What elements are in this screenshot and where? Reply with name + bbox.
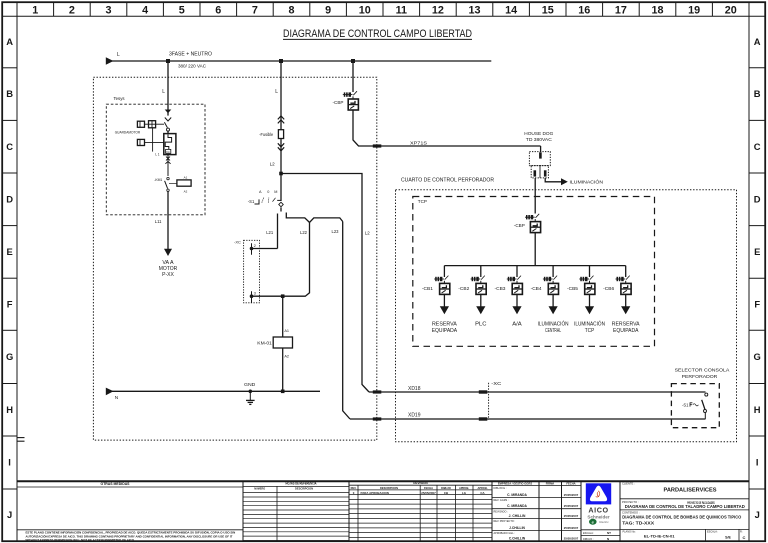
svg-text:-CB1: -CB1 bbox=[422, 286, 434, 291]
svg-text:L2: L2 bbox=[365, 231, 370, 236]
approval row C. MIRANDA bbox=[492, 499, 581, 509]
load label -CB1 bbox=[432, 322, 458, 335]
wire+arrow below -CB5 bbox=[585, 294, 594, 314]
KM1 aux box bbox=[169, 176, 191, 194]
svg-text:EMPRESA / GESTIO GGRS: EMPRESA / GESTIO GGRS bbox=[498, 481, 532, 485]
svg-text:7: 7 bbox=[252, 5, 258, 17]
wire: L21 to XC pin2 bbox=[252, 248, 278, 250]
wire+arrow below -CB6 bbox=[621, 294, 630, 314]
svg-text:DIBUJO: DIBUJO bbox=[441, 486, 451, 490]
fuse bbox=[278, 130, 283, 139]
svg-text:-CB3: -CB3 bbox=[495, 286, 507, 291]
wire+arrow below -CB1 bbox=[440, 294, 449, 314]
svg-text:HOJAS DE REFERENCIA: HOJAS DE REFERENCIA bbox=[286, 481, 318, 485]
svg-text:P-XX: P-XX bbox=[162, 272, 174, 278]
svg-text:C.CHILLIN: C.CHILLIN bbox=[509, 537, 526, 541]
svg-text:A: A bbox=[754, 36, 761, 47]
distribution bus bbox=[444, 265, 625, 267]
wire: bus drop -CB3 bbox=[516, 266, 518, 277]
svg-text:GND: GND bbox=[244, 382, 256, 387]
TCP dashed box bbox=[413, 197, 655, 347]
svg-text:REV.: REV. bbox=[351, 486, 357, 490]
svg-text:D: D bbox=[754, 193, 761, 204]
svg-text:A1: A1 bbox=[284, 329, 289, 333]
svg-text:N: N bbox=[607, 537, 609, 541]
svg-text:4: 4 bbox=[142, 5, 148, 17]
svg-text:RERSERVA: RERSERVA bbox=[612, 322, 640, 328]
svg-text:R:: R: bbox=[740, 531, 743, 534]
svg-text:B: B bbox=[754, 88, 761, 99]
proyecto block bbox=[620, 500, 749, 510]
svg-text:20: 20 bbox=[725, 5, 737, 17]
svg-text:25/05/2007: 25/05/2007 bbox=[421, 491, 436, 495]
svg-text:25/05/2007: 25/05/2007 bbox=[564, 526, 579, 530]
svg-text:DESCRIPCION: DESCRIPCION bbox=[380, 486, 398, 490]
approval row J.CHILLIN bbox=[492, 520, 581, 530]
switch S1 (consola) bbox=[702, 393, 708, 419]
junction node coil branch bbox=[281, 294, 285, 298]
left notes block bbox=[17, 482, 243, 530]
svg-text:J: J bbox=[7, 509, 12, 520]
XC field terminal line bbox=[489, 381, 503, 420]
transformer T1 house dog bbox=[529, 146, 550, 178]
guardamotor switch contact circle bbox=[167, 128, 170, 131]
breaker -CB3 bbox=[495, 276, 523, 295]
svg-text:0: 0 bbox=[267, 190, 269, 194]
AICO Schneider logo bbox=[586, 483, 611, 525]
svg-text:A: A bbox=[6, 36, 13, 47]
svg-text:L11: L11 bbox=[155, 219, 162, 224]
svg-text:-CB4: -CB4 bbox=[531, 286, 543, 291]
label VA A MOTOR P-XX bbox=[159, 260, 178, 278]
disconnect chevrons above fuse bbox=[278, 116, 284, 124]
svg-text:TAG: TD-XXX: TAG: TD-XXX bbox=[622, 521, 654, 526]
svg-text:WITHOUT EXPRESS PERMISSION WIL: WITHOUT EXPRESS PERMISSION WILL NOT BE A… bbox=[26, 538, 135, 542]
label HOUSE DOG TD 380VAC bbox=[524, 131, 554, 142]
svg-text:N: N bbox=[115, 395, 119, 401]
XC field terminal marks bbox=[479, 390, 488, 420]
svg-text:L: L bbox=[162, 89, 165, 95]
wire: CBP to XP71S bbox=[353, 110, 541, 146]
svg-text:REV. GGRS :: REV. GGRS : bbox=[494, 499, 509, 502]
svg-text:H: H bbox=[6, 404, 13, 415]
S1 actuator symbol bbox=[690, 403, 698, 407]
svg-text:TCP: TCP bbox=[418, 199, 427, 205]
svg-text:-Fusible: -Fusible bbox=[259, 132, 274, 137]
svg-text:25/05/2007: 25/05/2007 bbox=[564, 493, 579, 497]
svg-text:Tesys: Tesys bbox=[114, 96, 126, 102]
cuarto de control perforador dotted box bbox=[396, 177, 737, 441]
svg-text:XD19: XD19 bbox=[408, 413, 421, 419]
svg-text:3: 3 bbox=[105, 5, 111, 17]
svg-text:S/E: S/E bbox=[725, 536, 731, 540]
svg-text:F: F bbox=[7, 298, 13, 309]
svg-text:CB: CB bbox=[444, 491, 448, 495]
XC pin 3 bbox=[250, 291, 257, 303]
contenido block bbox=[620, 510, 749, 529]
svg-text:G: G bbox=[754, 351, 761, 362]
svg-text:C: C bbox=[743, 535, 746, 540]
svg-text:TD 380VAC: TD 380VAC bbox=[526, 137, 552, 142]
svg-text:REVISION: REVISION bbox=[413, 481, 427, 485]
breaker -CB2 bbox=[458, 276, 486, 295]
svg-text:L2: L2 bbox=[270, 162, 276, 167]
svg-text:DIAGRAMA DE CONTROL DE TALADRO: DIAGRAMA DE CONTROL DE TALADRO CAMPO LIB… bbox=[625, 504, 745, 509]
svg-text:E: E bbox=[6, 246, 12, 257]
svg-text:EL-TD-IE-CN-01: EL-TD-IE-CN-01 bbox=[644, 534, 675, 538]
hojas de referencia table bbox=[243, 481, 349, 541]
svg-text:A2: A2 bbox=[284, 354, 289, 358]
plano no box bbox=[623, 529, 746, 541]
svg-text:L21: L21 bbox=[266, 230, 274, 235]
trip linkage marks below thermal unit bbox=[165, 155, 170, 176]
load label -CB4 bbox=[538, 321, 569, 335]
disconnect chevrons below fuse bbox=[278, 143, 284, 151]
svg-text:L22: L22 bbox=[300, 230, 308, 235]
svg-text:C: C bbox=[754, 141, 761, 152]
load label -CB6 bbox=[612, 322, 640, 335]
ground node bbox=[249, 390, 253, 394]
svg-text:PERFORADOR: PERFORADOR bbox=[682, 374, 718, 379]
svg-text:KM-01: KM-01 bbox=[257, 340, 272, 345]
wire: transformer to TCP CBP bbox=[534, 178, 536, 214]
junction node bus/CBP bbox=[351, 59, 355, 63]
svg-text:EQUIPADA: EQUIPADA bbox=[432, 328, 458, 334]
svg-text:L23: L23 bbox=[332, 229, 340, 234]
wire: L23 to XD19 bbox=[343, 222, 350, 420]
approval row J. CHILLIN bbox=[492, 510, 581, 518]
svg-text:Electric: Electric bbox=[599, 520, 609, 524]
selector consola dashed box bbox=[671, 384, 719, 428]
svg-text:18: 18 bbox=[651, 5, 663, 17]
svg-text:25/05/2007: 25/05/2007 bbox=[564, 514, 579, 518]
svg-text:ILUMINACIÓN: ILUMINACIÓN bbox=[574, 321, 605, 328]
svg-text:C: C bbox=[6, 141, 13, 152]
selector S1 symbol bbox=[255, 198, 284, 207]
svg-text:-KM1: -KM1 bbox=[154, 178, 162, 182]
svg-text:-S1: -S1 bbox=[248, 199, 255, 204]
thermal overload unit bbox=[164, 134, 176, 155]
KM1 contact bbox=[165, 177, 170, 191]
svg-text:L: L bbox=[275, 89, 278, 95]
svg-text:APROBADO GGL :: APROBADO GGL : bbox=[494, 532, 516, 535]
svg-text:8: 8 bbox=[288, 5, 294, 17]
wire XD19 bbox=[350, 418, 706, 420]
svg-text:DIBUJO :: DIBUJO : bbox=[583, 538, 594, 541]
junction node coil/N bbox=[281, 390, 285, 394]
svg-text:L: L bbox=[117, 52, 120, 58]
svg-text:ILUMINACIÓN: ILUMINACIÓN bbox=[570, 179, 604, 186]
svg-text:12: 12 bbox=[432, 5, 444, 17]
Tesys box bbox=[106, 96, 205, 215]
svg-text:XD18: XD18 bbox=[408, 386, 421, 392]
svg-text:OTRAS MEDIDAS: OTRAS MEDIDAS bbox=[101, 482, 130, 486]
svg-text:F: F bbox=[754, 298, 760, 309]
cliente block bbox=[620, 482, 749, 499]
svg-text:B: B bbox=[6, 88, 13, 99]
svg-text:GUARDAMOTOR: GUARDAMOTOR bbox=[115, 131, 141, 135]
svg-text:J: J bbox=[755, 509, 760, 520]
title block frame bbox=[17, 480, 749, 482]
svg-text:14: 14 bbox=[505, 5, 517, 17]
drawing title bbox=[283, 28, 472, 40]
wire: top bus 380/220 VAC bbox=[112, 60, 491, 62]
revision table bbox=[349, 481, 492, 490]
svg-text:H: H bbox=[754, 404, 761, 415]
wire+arrow below -CB3 bbox=[512, 294, 521, 314]
svg-text:ILUMINACIÓN: ILUMINACIÓN bbox=[538, 321, 569, 328]
wire XD18 bbox=[369, 391, 706, 393]
N feeder arrow bbox=[106, 388, 114, 396]
svg-text:AICO: AICO bbox=[588, 505, 608, 514]
guardamotor switch blade bbox=[164, 122, 167, 127]
svg-text:CENTRAL: CENTRAL bbox=[545, 328, 561, 334]
svg-text:DESCRIPCION: DESCRIPCION bbox=[295, 486, 313, 490]
svg-text:Dn: Dn bbox=[166, 150, 170, 154]
wire: bus to fuse bbox=[280, 61, 282, 130]
svg-text:6: 6 bbox=[215, 5, 221, 17]
svg-text:HOUSE DOG: HOUSE DOG bbox=[524, 131, 554, 136]
wire: branch to long L2 line bbox=[281, 174, 369, 393]
approval row C. MIRANDA bbox=[492, 487, 581, 497]
wire: bus drop -CB6 bbox=[625, 266, 627, 277]
wire+arrow below -CB4 bbox=[549, 294, 558, 314]
svg-text:-S1: -S1 bbox=[682, 402, 689, 407]
svg-text:17: 17 bbox=[615, 5, 627, 17]
guardamotor disconnect chevron bbox=[165, 118, 171, 122]
svg-text:NUMERO: NUMERO bbox=[254, 486, 266, 490]
svg-text:I: I bbox=[756, 457, 759, 468]
XC pin 2 bbox=[250, 243, 257, 255]
svg-text:DIAGRAMA DE CONTROL DE BOMBAS: DIAGRAMA DE CONTROL DE BOMBAS DE QUIMICO… bbox=[622, 515, 742, 520]
label SELECTOR CONSOLA PERFORADOR bbox=[675, 368, 731, 379]
svg-text:APROB.: APROB. bbox=[459, 486, 469, 490]
motor feed arrowhead bbox=[164, 249, 172, 256]
svg-text:PLANO No :: PLANO No : bbox=[623, 531, 637, 534]
svg-text:XP71S: XP71S bbox=[410, 140, 427, 145]
svg-text:-CB5: -CB5 bbox=[567, 286, 579, 291]
svg-text:2: 2 bbox=[69, 5, 75, 17]
svg-text:NT: NT bbox=[607, 531, 611, 535]
svg-text:-XC: -XC bbox=[491, 381, 502, 386]
scale box under logo bbox=[581, 530, 620, 541]
svg-text:10: 10 bbox=[359, 5, 371, 17]
plug connector symbol a bbox=[137, 121, 148, 127]
svg-text:SELECTOR CONSOLA: SELECTOR CONSOLA bbox=[675, 368, 731, 373]
svg-text:15: 15 bbox=[542, 5, 554, 17]
svg-text:-XC: -XC bbox=[234, 239, 241, 244]
svg-text:EQUIPADA: EQUIPADA bbox=[613, 328, 639, 334]
breaker -CBP (TCP) bbox=[514, 214, 541, 233]
iluminacion arrowhead bbox=[561, 178, 568, 185]
column numbers 1-20 bbox=[17, 2, 749, 16]
wire: KM1 to motor arrow bbox=[167, 191, 169, 249]
svg-text:25/05/2007: 25/05/2007 bbox=[564, 537, 579, 541]
svg-text:C. MIRANDA: C. MIRANDA bbox=[507, 504, 527, 508]
disclaimer text bbox=[26, 530, 236, 542]
wire: to KM-01 coil bbox=[282, 296, 284, 337]
revision row 0 bbox=[353, 491, 486, 495]
main control cabinet dotted box bbox=[93, 77, 376, 440]
junction node L2 branch bbox=[279, 172, 283, 176]
wire: bus drop -CB5 bbox=[589, 266, 591, 277]
arrowhead into tesys bbox=[165, 110, 172, 114]
terminal mark XD18 bbox=[373, 390, 382, 393]
junction node bus/L2 bbox=[279, 59, 283, 63]
wire+arrow below -CB2 bbox=[476, 294, 485, 314]
svg-text:DIBUJO E :: DIBUJO E : bbox=[494, 487, 507, 490]
plug connector symbol b bbox=[149, 121, 165, 128]
svg-text:1: 1 bbox=[32, 5, 38, 17]
wire: L22 bbox=[252, 222, 310, 296]
svg-text:9: 9 bbox=[325, 5, 331, 17]
wire: neutral bus bbox=[112, 390, 320, 392]
svg-text:E: E bbox=[754, 246, 760, 257]
svg-text:C. MIRANDA: C. MIRANDA bbox=[507, 493, 527, 497]
breaker -CBP (main) bbox=[333, 91, 359, 110]
svg-text:J.CHILLIN: J.CHILLIN bbox=[509, 526, 525, 530]
svg-text:ESCALA :: ESCALA : bbox=[707, 531, 718, 534]
svg-text:PLC: PLC bbox=[475, 322, 486, 328]
svg-text:RESERVA: RESERVA bbox=[432, 322, 457, 328]
svg-text:L 1: L 1 bbox=[155, 152, 160, 156]
wire: bus to guardamotor bbox=[167, 61, 169, 116]
terminal mark XP71S bbox=[373, 144, 382, 147]
selector S1 labels A 0 M bbox=[259, 190, 277, 194]
svg-text:FECHA: FECHA bbox=[566, 481, 575, 485]
svg-text:11: 11 bbox=[396, 5, 407, 17]
wire: below S1 split bbox=[278, 207, 343, 248]
svg-text:CLIENTE :: CLIENTE : bbox=[622, 482, 635, 486]
wire: fuse to S1 bbox=[280, 139, 282, 202]
svg-text:19: 19 bbox=[688, 5, 700, 17]
coil KM-01 bbox=[257, 337, 292, 348]
svg-text:16: 16 bbox=[578, 5, 590, 17]
empresa approvals block bbox=[492, 481, 581, 485]
wire: transformer to iluminacion arrow bbox=[545, 178, 561, 182]
svg-text:A2: A2 bbox=[184, 190, 188, 194]
svg-text:G: G bbox=[6, 351, 13, 362]
svg-text:5: 5 bbox=[179, 5, 185, 17]
svg-text:FIRMA: FIRMA bbox=[546, 481, 555, 485]
svg-text:A/A: A/A bbox=[512, 322, 522, 328]
wire: bus drop -CB4 bbox=[552, 266, 554, 277]
svg-text:A1: A1 bbox=[184, 176, 188, 180]
svg-text:I: I bbox=[8, 457, 11, 468]
L feeder arrow bbox=[106, 57, 114, 65]
breaker -CB1 bbox=[422, 276, 450, 295]
plug connector symbol c bbox=[137, 139, 163, 145]
svg-text:PARDALISERVICES: PARDALISERVICES bbox=[664, 488, 718, 494]
svg-text:APROB.: APROB. bbox=[477, 486, 487, 490]
svg-text:D: D bbox=[6, 193, 13, 204]
wire: coil to N bbox=[282, 348, 284, 391]
wire: bus drop -CB2 bbox=[480, 266, 482, 277]
svg-text:ESCALA :: ESCALA : bbox=[583, 532, 594, 535]
svg-text:13: 13 bbox=[468, 5, 480, 17]
fold mark bbox=[17, 438, 25, 442]
svg-text:25/05/2007: 25/05/2007 bbox=[564, 504, 579, 508]
wire: connector b to c link bbox=[152, 128, 154, 152]
svg-text:FECHA: FECHA bbox=[424, 486, 433, 490]
svg-text:PARA APROBACION: PARA APROBACION bbox=[361, 491, 389, 495]
svg-text:-CB6: -CB6 bbox=[603, 286, 615, 291]
svg-text:CUARTO DE CONTROL PERFORADOR: CUARTO DE CONTROL PERFORADOR bbox=[401, 177, 494, 183]
terminal mark XD19 bbox=[373, 417, 382, 420]
load label -CB5 bbox=[574, 321, 605, 335]
svg-text:-CBP: -CBP bbox=[333, 100, 344, 105]
XC terminal box (cabinet) bbox=[234, 239, 260, 302]
breaker -CB5 bbox=[567, 276, 595, 295]
approval row C.CHILLIN bbox=[492, 532, 581, 541]
junction node bus/Tesys bbox=[166, 59, 170, 63]
wire: bus to CBP bbox=[352, 61, 354, 92]
breaker -CB4 bbox=[531, 276, 559, 295]
svg-text:380/ 220 VAC: 380/ 220 VAC bbox=[178, 64, 207, 70]
svg-text:TCP: TCP bbox=[585, 328, 595, 334]
wire into thermal unit bbox=[167, 131, 169, 134]
wire: bus drop -CB1 bbox=[443, 266, 445, 277]
svg-text:-CBP: -CBP bbox=[514, 223, 525, 228]
svg-text:DIAGRAMA DE CONTROL CAMPO LIBE: DIAGRAMA DE CONTROL CAMPO LIBERTAD bbox=[283, 28, 472, 40]
svg-text:REV. PROYECTO :: REV. PROYECTO : bbox=[494, 520, 516, 523]
svg-text:REVISADO :: REVISADO : bbox=[494, 510, 509, 513]
wire: CBP to distribution bus bbox=[534, 233, 536, 266]
breaker -CB6 bbox=[603, 276, 631, 295]
svg-text:3FASE + NEUTRO: 3FASE + NEUTRO bbox=[169, 51, 212, 57]
svg-text:J. CHILLIN: J. CHILLIN bbox=[509, 514, 526, 518]
svg-text:M: M bbox=[274, 190, 277, 194]
ground symbol bbox=[246, 391, 255, 404]
svg-text:-CB2: -CB2 bbox=[458, 286, 470, 291]
